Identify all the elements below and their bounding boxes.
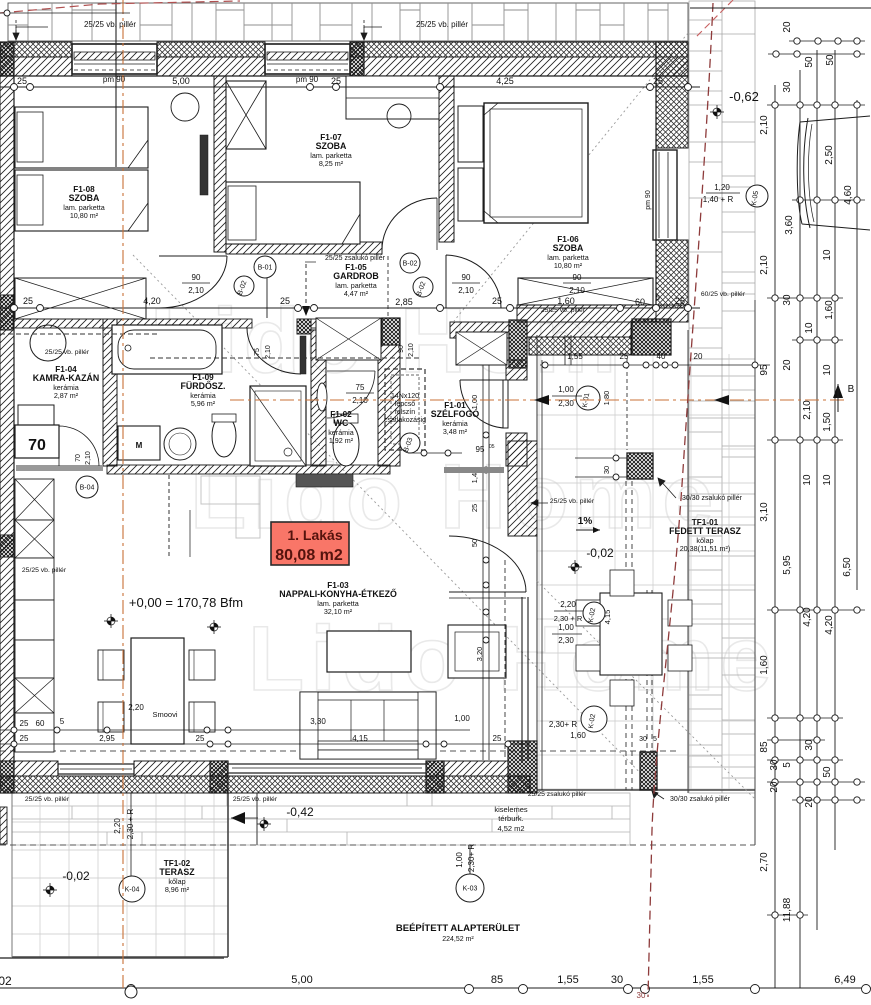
svg-text:-0,62: -0,62 (729, 89, 759, 104)
svg-text:B-04: B-04 (80, 485, 95, 492)
svg-text:25/25 vb. pillér: 25/25 vb. pillér (550, 498, 595, 505)
svg-text:224,52 m²: 224,52 m² (442, 936, 474, 943)
svg-text:30: 30 (639, 736, 647, 743)
svg-text:14Nx120: 14Nx120 (391, 393, 419, 400)
svg-text:4,15: 4,15 (352, 734, 368, 743)
svg-text:30/30 zsalukó pillér: 30/30 zsalukó pillér (682, 495, 743, 502)
svg-text:2,95: 2,95 (99, 734, 115, 743)
svg-text:1,60: 1,60 (570, 731, 586, 740)
svg-text:2,10: 2,10 (408, 343, 415, 357)
svg-text:lépcső: lépcső (395, 401, 415, 408)
svg-text:25: 25 (675, 296, 685, 306)
svg-text:2,70: 2,70 (759, 852, 770, 872)
svg-text:1,92 m²: 1,92 m² (329, 436, 354, 445)
svg-text:2,10: 2,10 (802, 400, 813, 420)
svg-text:TERASZ: TERASZ (159, 867, 195, 877)
svg-text:25: 25 (280, 296, 290, 306)
svg-text:-0,02: -0,02 (586, 546, 614, 560)
svg-text:25: 25 (23, 296, 33, 306)
svg-text:2,10: 2,10 (458, 286, 474, 295)
svg-text:kiselemes: kiselemes (494, 805, 528, 814)
svg-text:25/25 vb. pillér: 25/25 vb. pillér (416, 20, 468, 29)
svg-text:10,80 m²: 10,80 m² (554, 261, 583, 270)
svg-text:10: 10 (802, 474, 813, 486)
svg-text:6,50: 6,50 (842, 557, 853, 577)
svg-text:4,20: 4,20 (824, 615, 835, 635)
svg-text:05: 05 (489, 444, 495, 450)
svg-text:SZOBA: SZOBA (316, 141, 347, 151)
svg-text:25/25 zsalukó pillér: 25/25 zsalukó pillér (325, 255, 386, 262)
svg-text:1,00: 1,00 (455, 852, 464, 868)
svg-text:25: 25 (20, 719, 29, 728)
svg-text:25/25 vb. pillér: 25/25 vb. pillér (84, 20, 136, 29)
svg-text:4,60: 4,60 (843, 185, 854, 205)
svg-text:20: 20 (769, 781, 780, 793)
svg-text:csatlakozásig: csatlakozásig (384, 417, 426, 424)
svg-text:SZOBA: SZOBA (553, 243, 584, 253)
svg-text:20: 20 (694, 352, 703, 361)
svg-text:20: 20 (782, 359, 793, 371)
svg-text:2,10: 2,10 (265, 345, 272, 359)
svg-text:75: 75 (254, 348, 261, 356)
svg-text:5,95: 5,95 (782, 555, 793, 575)
svg-text:1. Lakás: 1. Lakás (287, 527, 342, 543)
svg-text:4,25: 4,25 (496, 76, 514, 86)
svg-text:20: 20 (804, 796, 815, 808)
svg-text:+0,00 = 170,78 Bfm: +0,00 = 170,78 Bfm (129, 595, 243, 610)
svg-text:térburk.: térburk. (498, 814, 523, 823)
svg-text:2,10: 2,10 (759, 255, 770, 275)
svg-text:80,08 m2: 80,08 m2 (275, 547, 343, 564)
svg-text:5,96 m²: 5,96 m² (191, 399, 216, 408)
svg-text:10: 10 (822, 364, 833, 376)
svg-text:3,48 m²: 3,48 m² (443, 427, 468, 436)
svg-text:GARDROB: GARDROB (333, 271, 378, 281)
svg-text:1%: 1% (578, 516, 593, 527)
svg-text:2,87 m²: 2,87 m² (54, 391, 79, 400)
svg-text:30: 30 (602, 466, 611, 474)
svg-text:4,20: 4,20 (143, 296, 161, 306)
svg-text:30/30 zsalukó pillér: 30/30 zsalukó pillér (670, 796, 731, 803)
svg-text:85: 85 (759, 741, 770, 753)
svg-text:Smoovi: Smoovi (152, 710, 177, 719)
svg-text:2,30+ R: 2,30+ R (467, 844, 476, 872)
svg-text:1,20: 1,20 (714, 183, 730, 192)
svg-text:1,55: 1,55 (567, 352, 583, 361)
svg-text:10: 10 (804, 322, 815, 334)
svg-text:1,55: 1,55 (557, 974, 578, 986)
svg-text:2,30 + R: 2,30 + R (554, 614, 583, 623)
svg-text:90: 90 (573, 273, 582, 282)
svg-text:50: 50 (804, 56, 815, 68)
svg-text:30: 30 (611, 974, 623, 986)
svg-text:5: 5 (653, 736, 657, 743)
svg-text:2,30: 2,30 (558, 636, 574, 645)
svg-text:11,88: 11,88 (782, 897, 793, 922)
svg-text:60: 60 (36, 719, 45, 728)
svg-text:10,80 m²: 10,80 m² (70, 211, 99, 220)
svg-text:2,85: 2,85 (395, 297, 413, 307)
svg-text:WC: WC (334, 418, 349, 428)
svg-text:25: 25 (331, 76, 341, 86)
svg-text:30: 30 (804, 739, 815, 751)
svg-text:4,47 m²: 4,47 m² (344, 289, 369, 298)
svg-text:1,00: 1,00 (454, 714, 470, 723)
svg-text:2,10: 2,10 (759, 115, 770, 135)
svg-text:50: 50 (822, 766, 833, 778)
svg-text:32,10 m²: 32,10 m² (324, 607, 353, 616)
svg-text:2,10: 2,10 (188, 286, 204, 295)
svg-text:KAMRA-KAZÁN: KAMRA-KAZÁN (33, 373, 99, 383)
svg-text:1,00: 1,00 (558, 623, 574, 632)
svg-text:SZÉLFOGÓ: SZÉLFOGÓ (431, 408, 480, 419)
svg-text:1,60: 1,60 (824, 300, 835, 320)
svg-text:25: 25 (17, 76, 27, 86)
svg-text:25: 25 (492, 296, 502, 306)
svg-text:40: 40 (657, 352, 666, 361)
svg-text:3,10: 3,10 (759, 502, 770, 522)
svg-text:25/25 zsalukó pillér: 25/25 zsalukó pillér (528, 791, 587, 798)
svg-text:B: B (848, 384, 855, 395)
svg-text:1,40 + R: 1,40 + R (703, 195, 734, 204)
svg-text:2,20: 2,20 (560, 600, 576, 609)
svg-text:25: 25 (20, 734, 29, 743)
svg-text:3,60: 3,60 (784, 215, 795, 235)
svg-text:B-01: B-01 (258, 265, 273, 272)
svg-text:95: 95 (759, 364, 770, 376)
svg-text:30: 30 (769, 759, 780, 771)
svg-text:25: 25 (653, 76, 663, 86)
svg-text:M: M (136, 441, 143, 450)
svg-text:2,20: 2,20 (128, 703, 144, 712)
svg-text:10: 10 (822, 474, 833, 486)
svg-text:3,30: 3,30 (310, 717, 326, 726)
svg-text:2,10: 2,10 (569, 286, 585, 295)
svg-text:25: 25 (196, 734, 205, 743)
svg-text:-0,42: -0,42 (286, 805, 314, 819)
svg-text:25/25 vb. pillér: 25/25 vb. pillér (45, 349, 90, 356)
svg-text:K-04: K-04 (125, 887, 140, 894)
svg-text:1,00: 1,00 (558, 385, 574, 394)
svg-text:1,60: 1,60 (557, 296, 575, 306)
svg-text:2,30+ R: 2,30+ R (549, 720, 577, 729)
svg-text:1,50: 1,50 (822, 412, 833, 432)
svg-text:1,00: 1,00 (470, 395, 479, 410)
svg-text:B-02: B-02 (403, 261, 418, 268)
svg-text:6,49: 6,49 (834, 974, 855, 986)
svg-text:70: 70 (28, 437, 46, 454)
svg-text:50: 50 (825, 54, 836, 66)
svg-text:70: 70 (75, 454, 82, 462)
svg-text:5,00: 5,00 (172, 76, 190, 86)
svg-text:pm 90: pm 90 (645, 190, 652, 210)
svg-text:90: 90 (192, 273, 201, 282)
svg-text:5: 5 (656, 295, 660, 302)
svg-text:4,20: 4,20 (802, 607, 813, 627)
svg-text:85: 85 (491, 974, 503, 986)
svg-text:5: 5 (60, 717, 65, 726)
svg-text:8,96 m²: 8,96 m² (165, 885, 190, 894)
svg-text:20,38(11,51 m²): 20,38(11,51 m²) (680, 544, 731, 553)
svg-text:25/25 vb. pillér: 25/25 vb. pillér (233, 796, 278, 803)
svg-text:felszín: felszín (395, 409, 415, 416)
svg-text:K-03: K-03 (463, 886, 478, 893)
svg-text:30: 30 (782, 81, 793, 93)
svg-text:-0,02: -0,02 (62, 869, 90, 883)
svg-text:25: 25 (470, 504, 479, 512)
svg-text:5: 5 (782, 762, 793, 768)
svg-text:BEÉPÍTETT ALAPTERÜLET: BEÉPÍTETT ALAPTERÜLET (396, 923, 520, 934)
svg-text:25: 25 (620, 352, 629, 361)
svg-text:60: 60 (635, 297, 645, 307)
svg-text:02: 02 (0, 974, 12, 988)
svg-text:50: 50 (470, 539, 479, 547)
svg-text:20: 20 (782, 21, 793, 33)
svg-text:90: 90 (462, 273, 471, 282)
svg-text:5,00: 5,00 (291, 974, 312, 986)
svg-text:25: 25 (493, 734, 502, 743)
svg-text:NAPPALI-KONYHA-ÉTKEZŐ: NAPPALI-KONYHA-ÉTKEZŐ (279, 588, 397, 599)
svg-text:60/25 vb. pillér: 60/25 vb. pillér (701, 291, 746, 298)
svg-text:2,20: 2,20 (113, 818, 122, 834)
svg-text:2,30 + R: 2,30 + R (126, 809, 135, 840)
svg-text:8,25 m²: 8,25 m² (319, 159, 344, 168)
svg-text:30: 30 (782, 294, 793, 306)
svg-text:95: 95 (476, 445, 485, 454)
svg-text:FEDETT TERASZ: FEDETT TERASZ (669, 526, 741, 536)
svg-text:4,52 m2: 4,52 m2 (497, 824, 524, 833)
svg-text:1,80: 1,80 (602, 391, 611, 406)
svg-text:10: 10 (822, 249, 833, 261)
svg-text:FÜRDŐSZ.: FÜRDŐSZ. (181, 380, 226, 391)
svg-text:75: 75 (356, 383, 365, 392)
svg-text:25/25 vb. pillér: 25/25 vb. pillér (25, 796, 70, 803)
svg-text:1,60: 1,60 (759, 655, 770, 675)
svg-text:2,10: 2,10 (85, 451, 92, 465)
svg-text:SZOBA: SZOBA (69, 193, 100, 203)
svg-text:30: 30 (637, 991, 646, 1000)
svg-text:2,50: 2,50 (824, 145, 835, 165)
svg-text:1,55: 1,55 (692, 974, 713, 986)
svg-text:25/25 vb. pillér: 25/25 vb. pillér (22, 567, 67, 574)
svg-text:90: 90 (398, 345, 405, 353)
